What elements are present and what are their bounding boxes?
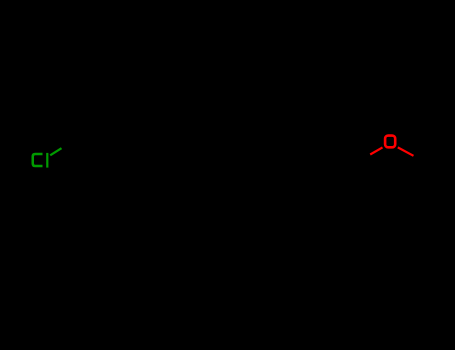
wire: carbon chain bonds C1-C11 (black on black) xyxy=(62,141,311,162)
benzene ring inner double bonds (black on black) xyxy=(351,166,353,185)
bond ring-O, carbon half (black) xyxy=(357,155,370,163)
atom label Cl: letter C (green) xyxy=(33,154,43,166)
bond O-CH3, carbon half (black) xyxy=(414,156,428,164)
atom label O (red) xyxy=(385,136,395,148)
atom label Cl: letter l drawn as bar to match cap-height xyxy=(46,153,48,168)
bond O-CH3, oxygen half (red) xyxy=(398,147,414,155)
bond C1-Cl, chlorine half (green) xyxy=(50,148,61,155)
bond ring-O, oxygen half (red) xyxy=(370,147,382,154)
benzene ring (black on black) xyxy=(311,149,358,203)
